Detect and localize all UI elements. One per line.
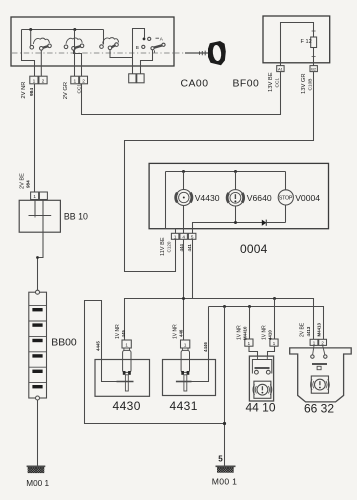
wire: BB10 to BB00 [38,216,44,291]
instrument cluster 0004 box [149,163,328,228]
wire: bus left feed to pin A1 [22,30,35,77]
wire: sw3 output to connector C pin1 and link to S4 [133,29,145,74]
svg-text:4445: 4445 [96,341,101,351]
lamp V6640 [227,172,244,223]
svg-text:5: 5 [218,455,223,464]
ground M001 right [216,466,236,472]
svg-text:13V GR: 13V GR [301,73,307,94]
svg-text:11V BE: 11V BE [160,237,166,256]
switch S3 [100,30,133,58]
svg-text:A: A [160,37,164,42]
wire: bus1 branch to 4410 right pin [274,299,276,340]
svg-text:F 12: F 12 [301,39,312,45]
svg-text:4: 4 [182,234,185,239]
node bus1-444 [182,297,185,300]
svg-text:4430: 4430 [113,399,141,413]
svg-text:B2: B2 [311,67,317,72]
svg-text:445: 445 [121,330,126,338]
connector A pins 1,2 [30,76,47,84]
ground M001 left [27,466,46,473]
svg-text:CA00: CA00 [181,79,209,90]
node BB10 out [36,256,39,259]
key symbol CA00 [185,41,226,65]
svg-text:0004: 0004 [240,242,268,256]
svg-text:1: 1 [313,340,316,345]
svg-text:2V NR: 2V NR [21,82,27,99]
fuse F12 [311,29,317,59]
svg-text:44 10: 44 10 [246,401,276,415]
wire C10B net: BF00 pin B2 down, across, to 0004 pin1 [125,72,314,272]
diode D1 [262,220,267,226]
svg-text:4410: 4410 [268,330,273,340]
wire 4446: lamp 4431 to bus2 [192,307,209,382]
lamp V4430 [176,172,192,234]
connector B pins 1,2 [71,76,88,84]
svg-text:V0004: V0004 [295,193,320,203]
switch assembly CA00 box [11,17,174,66]
wire: BB00 to ground [37,400,39,466]
svg-text:2: 2 [82,78,85,84]
svg-text:2V BE: 2V BE [299,322,305,337]
lamp STOP V0004 [278,172,293,223]
brake pad sensor 4431 [163,340,216,396]
svg-text:BB00: BB00 [51,338,77,349]
wire: diode line pin5 to STOP [193,223,286,234]
svg-text:V6640: V6640 [247,193,272,203]
node ground bus [223,422,226,425]
brake fluid switch 4410 [245,339,278,401]
svg-text:M4413: M4413 [317,323,322,337]
svg-text:B: B [136,45,139,50]
wire: BF00 internal [281,23,314,66]
connector BB10 [31,192,48,200]
node bus-sw2 [73,28,76,31]
svg-text:2: 2 [321,340,324,345]
svg-text:M4410: M4410 [242,326,247,340]
wire 444: 0004 pin4 down to 4431 [183,239,185,340]
node V6640-diode line [234,221,237,224]
svg-text:5: 5 [191,234,194,239]
brake pad sensor 4430 [95,340,150,396]
svg-text:441: 441 [187,244,192,252]
switch S4 [141,37,166,74]
svg-text:2: 2 [42,78,45,84]
junction box BB10 [19,200,60,233]
node bus-V6640 [234,170,237,173]
wire: 0004 inner bus [166,171,286,173]
svg-text:1: 1 [33,194,36,199]
svg-text:C120: C120 [167,241,172,252]
svg-text:446: 446 [178,329,183,337]
svg-text:1: 1 [184,343,187,348]
connector C (internal) [129,74,144,83]
wire: bus to pin1 [166,172,176,234]
pin A1 (BF00) [277,66,284,72]
node bus-V4430 [182,170,185,173]
pin B2 (BF00) [310,66,317,72]
wire: inner supply bus [22,29,104,31]
node bus2-ground [223,305,226,308]
svg-text:CC1: CC1 [274,78,280,88]
svg-text:STOP: STOP [279,195,293,201]
svg-text:1: 1 [33,78,36,84]
mechanical dash-dot linkage line [12,52,190,54]
svg-text:13V BE: 13V BE [268,72,274,92]
svg-text:BF00: BF00 [233,79,260,90]
wire: bus2 to 4410 left pin [249,307,251,340]
wire bus1 [125,299,314,341]
svg-text:M00 1: M00 1 [26,479,49,488]
node bus1-4410 [273,297,276,300]
svg-text:1: 1 [248,341,251,346]
svg-text:2V GR: 2V GR [63,82,69,99]
handbrake switch 6632 [290,339,352,402]
switch S2 [64,30,84,77]
svg-text:1: 1 [73,78,76,84]
svg-text:1: 1 [125,343,128,348]
node bus-sw1 [29,28,32,31]
wire: ground stem [224,307,226,467]
wire 441: 0004 pin5 into bus1 [192,239,194,298]
svg-text:4431: 4431 [170,399,198,413]
svg-text:4446: 4446 [203,342,208,352]
svg-text:984: 984 [25,180,30,188]
wire bus2 (ground side) [209,307,324,340]
svg-text:M00 1: M00 1 [212,477,237,487]
switch S1 [30,30,51,77]
svg-text:BB 10: BB 10 [64,211,88,221]
wire: battery feed pin A1 down to BB10 [34,84,36,192]
connector 0004 pins 1,4,5 [171,233,196,239]
wire CC1 net: connector B pin2 to BF00 pin A1 [82,72,281,115]
svg-text:66 32: 66 32 [304,402,334,416]
svg-text:4413: 4413 [306,326,311,336]
svg-text:V4430: V4430 [195,193,220,203]
svg-text:1: 1 [174,234,177,239]
svg-text:1: 1 [273,341,276,346]
fuse box BF00 [263,16,330,63]
wire 4445: lamp 4430 to ground bus [85,301,225,424]
node bus2-4410 [248,305,251,308]
svg-text:A1: A1 [278,67,284,72]
battery BB00 [29,290,47,400]
svg-text:C10B: C10B [307,79,313,91]
